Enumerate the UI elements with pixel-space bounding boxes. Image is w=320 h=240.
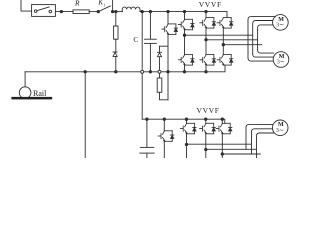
wire: leg2 collector drop bbox=[205, 12, 207, 18]
svg-text:Rail: Rail bbox=[33, 89, 47, 98]
svg-text:R: R bbox=[74, 0, 80, 7]
wire: leg2 collector drop (bottom unit) bbox=[205, 119, 207, 123]
wire: DC+ feed drop for unit 2 bbox=[141, 12, 143, 120]
main breaker box with disconnect switch bbox=[32, 5, 56, 17]
wheel on rail (return path) bbox=[19, 87, 31, 99]
traction motor M1 bbox=[273, 15, 289, 31]
switch blade bbox=[37, 7, 49, 11]
node C2 tap on DC+ bus (bottom unit) bbox=[146, 118, 148, 120]
wire: leg1 collector drop (bottom unit) bbox=[186, 119, 188, 123]
wire: leg1 mid bbox=[184, 30, 186, 55]
wire: phase U riser to motor M3 bbox=[246, 124, 274, 149]
wire: surge resistor to diode bbox=[115, 39, 117, 52]
wire: brake resistor bottom return bbox=[160, 92, 169, 100]
wire: leg1 collector drop bbox=[184, 12, 186, 20]
brake resistor (vertical) bbox=[157, 78, 162, 92]
node surge branch on return bus bbox=[115, 71, 117, 73]
wire: diode to return bus bbox=[115, 57, 117, 72]
wire: leg3 mid (bottom unit) bbox=[221, 134, 223, 158]
node phase W tap (bottom unit) bbox=[221, 153, 223, 155]
inverter leg 3 bottom IGBT (top unit) bbox=[217, 55, 233, 66]
svg-text:3∼: 3∼ bbox=[276, 128, 284, 134]
wire: chopper 2 emitter down (off screen) bbox=[163, 141, 165, 158]
wire: leg1 mid (bottom unit) bbox=[186, 134, 188, 158]
wire: phase V line (bottom unit) bbox=[206, 148, 257, 150]
wire: diode branch upper lead bbox=[159, 46, 161, 52]
brake chopper IGBT (top unit) bbox=[167, 12, 169, 24]
node at K1 hinge bbox=[97, 10, 99, 12]
crossover (no connect) on return bus bbox=[141, 70, 144, 73]
wire: incoming feed from pantograph (top left) bbox=[21, 0, 32, 11]
inverter leg 2 top IGBT (top unit) bbox=[200, 18, 216, 29]
wire: box to resistor R bbox=[55, 11, 73, 13]
wire: diode to crossover bbox=[159, 57, 161, 70]
wire: vertical drop from top edge at K1 landing bbox=[112, 0, 114, 12]
node C tap on return bus bbox=[149, 71, 151, 73]
node phase V tap bbox=[205, 39, 207, 41]
wire: phase U riser to motor M1 bbox=[248, 17, 276, 59]
node leg3 tap on DC+ bus (bottom unit) bbox=[221, 118, 223, 120]
crossover (no connect) of brake branch on return bus bbox=[158, 70, 161, 73]
wire: phase U line (bottom unit) bbox=[187, 143, 252, 145]
wire: phase U line bbox=[185, 34, 253, 36]
wire: jog to brake diode branch bbox=[160, 45, 169, 47]
wire: phase U drop to motor M2 bbox=[248, 58, 274, 61]
wire: phase V line bbox=[206, 39, 257, 41]
wire: phase W line (bottom unit) bbox=[222, 153, 260, 155]
wire: chopper emitter down bbox=[167, 34, 169, 99]
surge diode D0 bbox=[113, 52, 117, 56]
brake diode D1 bbox=[157, 52, 161, 56]
node phase U tap (bottom unit) bbox=[185, 143, 187, 145]
wire: DC+ bus (top unit) bbox=[142, 12, 227, 18]
brake chopper IGBT (bottom unit) bbox=[163, 119, 165, 131]
node K1 landing bbox=[111, 10, 113, 12]
wire: phase W drop to motor M2 bbox=[258, 50, 274, 53]
wire: leg2 mid bbox=[205, 28, 207, 54]
inverter leg 3 top IGBT (bottom unit) bbox=[216, 123, 232, 134]
svg-text:3∼: 3∼ bbox=[276, 22, 284, 28]
node leg2 tap on DC+ bus (bottom unit) bbox=[205, 118, 207, 120]
node after box bbox=[60, 10, 62, 12]
wire: to surge branch node bbox=[113, 11, 123, 13]
svg-text:C: C bbox=[133, 36, 138, 44]
wire: leg1 emitter to return bus bbox=[184, 65, 186, 72]
wire: phase W line bbox=[223, 44, 261, 46]
node phase V tap (bottom unit) bbox=[205, 148, 207, 150]
node C tap on DC+ bus bbox=[149, 10, 151, 12]
wire: DC+ bus (bottom unit) bbox=[142, 119, 225, 123]
wire: phase W riser to motor M3 (continues off-screen to M4) bbox=[257, 133, 274, 158]
inductor L (filter reactor, 4 humps) bbox=[122, 7, 140, 12]
wire: phase V drop to motor M2 bbox=[253, 54, 274, 57]
wire: leg2 emitter to return bus bbox=[205, 65, 207, 72]
node surge branch bbox=[115, 10, 117, 12]
wire: DC return bus (top unit) bbox=[25, 65, 225, 72]
svg-text:VVVF: VVVF bbox=[197, 106, 220, 115]
wire: phase V riser to motor M1 bbox=[253, 21, 273, 55]
switch contact circle left bbox=[34, 10, 37, 13]
wire: inductor to DC+ bus bbox=[140, 11, 142, 13]
node phase U tap bbox=[183, 34, 185, 36]
inverter leg 1 bottom IGBT (top unit) bbox=[178, 55, 194, 66]
node leg1 tap on DC+ bus bbox=[183, 10, 185, 12]
node leg1 emitter on return bus bbox=[183, 71, 185, 73]
svg-text:3∼: 3∼ bbox=[277, 60, 285, 66]
inverter leg 2 top IGBT (bottom unit) bbox=[200, 123, 216, 134]
inverter leg 2 bottom IGBT (top unit) bbox=[200, 55, 216, 66]
wire: leg3 mid bbox=[222, 28, 224, 54]
node leg1 tap on DC+ bus (bottom unit) bbox=[185, 118, 187, 120]
traction motor M3 bbox=[272, 120, 288, 136]
wire: wheel to return bus bbox=[24, 72, 26, 87]
traction motor M2 bbox=[273, 52, 289, 68]
switch contact circle right bbox=[49, 10, 52, 13]
wire: return feed for unit 2 bbox=[84, 72, 86, 158]
wire: phase V riser to motor M3 bbox=[252, 129, 273, 154]
rail bar bbox=[11, 97, 52, 100]
node chopper tap on DC+ bus bbox=[167, 10, 169, 12]
node leg2 emitter on return bus bbox=[205, 71, 207, 73]
inverter leg 1 top IGBT (bottom unit) bbox=[180, 123, 196, 134]
inverter leg 3 top IGBT (top unit) bbox=[217, 18, 233, 29]
surge resistor (vertical) bbox=[115, 12, 117, 26]
switch K1 blade bbox=[98, 6, 110, 12]
node chopper on return bus bbox=[167, 71, 169, 73]
wire: phase W riser to motor M1 bbox=[258, 25, 274, 50]
wire: leg3 collector drop (bottom unit) bbox=[221, 119, 223, 123]
node DC feed tap bbox=[141, 10, 143, 12]
resistor R bbox=[73, 10, 89, 14]
wire: R to switch K1 bbox=[89, 11, 98, 13]
inverter leg 1 top IGBT (top unit) bbox=[178, 19, 194, 30]
filter capacitor C2 (bottom unit) bbox=[146, 119, 148, 147]
node leg2 tap on DC+ bus bbox=[205, 10, 207, 12]
wire: leg2 mid (bottom unit) bbox=[205, 134, 207, 158]
node chopper tap on DC+ bus (bottom unit) bbox=[163, 118, 165, 120]
node return drop to unit 2 bbox=[84, 71, 86, 73]
node phase W tap bbox=[222, 44, 224, 46]
svg-text:1: 1 bbox=[103, 3, 105, 8]
svg-text:VVVF: VVVF bbox=[199, 0, 222, 9]
filter capacitor C (top unit) bbox=[149, 12, 151, 40]
